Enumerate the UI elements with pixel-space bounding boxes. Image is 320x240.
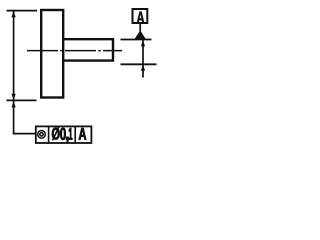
concentricity symbol inner circle: [40, 133, 43, 136]
tolerance digit 0: [60, 128, 65, 140]
extension line top right: [121, 39, 152, 41]
extension line top left: [7, 10, 38, 12]
frame divider 1: [48, 126, 50, 143]
extension line bottom left: [7, 99, 37, 101]
extension line bottom right: [121, 63, 157, 65]
arrowhead up (right dim top): [141, 40, 145, 46]
left dimension line: [13, 11, 15, 100]
part outline: flange rectangle: [41, 10, 63, 98]
arrowhead down (left dim bottom): [12, 94, 16, 101]
frame datum reference A: [79, 128, 87, 140]
datum triangle (filled): [134, 30, 146, 39]
datum stem: [139, 24, 141, 32]
datum box: [133, 9, 148, 23]
frame divider 2: [74, 126, 76, 143]
feature control frame box: [36, 126, 92, 143]
datum letter A: [137, 12, 145, 24]
tolerance symbol diameter: [52, 127, 60, 140]
tolerance comma: [66, 137, 68, 143]
arrowhead up (left dim top): [12, 11, 16, 17]
arrowhead up (right dim bottom): [141, 65, 145, 71]
leader from frame to dimension line: [14, 101, 36, 134]
arrowhead up (leader tip): [12, 101, 16, 107]
concentricity symbol outer circle: [38, 131, 46, 139]
tolerance digit 1: [69, 128, 72, 140]
centerline: [27, 50, 122, 52]
part outline: shaft rectangle: [63, 39, 113, 60]
right dimension line: [142, 40, 144, 78]
